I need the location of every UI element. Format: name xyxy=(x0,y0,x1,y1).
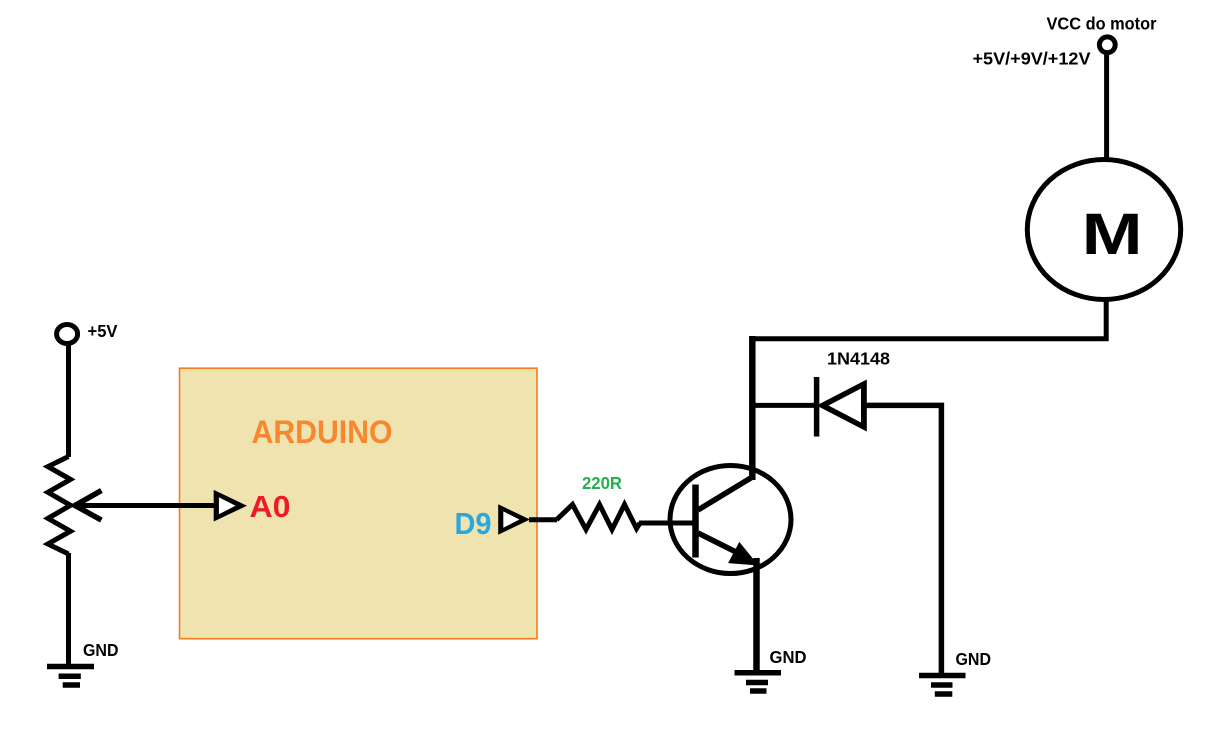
wire collector node to motor xyxy=(752,300,1106,339)
svg-text:A0: A0 xyxy=(250,489,291,524)
wire diode to right leg xyxy=(864,405,941,673)
pin A0 input triangle xyxy=(214,490,247,522)
wire emitter down xyxy=(753,558,760,672)
wire collector up xyxy=(749,336,756,480)
wire wiper to A0 xyxy=(76,503,214,508)
potentiometer R2 xyxy=(48,457,71,555)
svg-text:220R: 220R xyxy=(582,473,622,493)
wire D9 to resistor xyxy=(529,517,557,522)
wire VCC to motor xyxy=(1104,53,1109,161)
motor M1 xyxy=(1027,160,1180,300)
terminal VCC do motor xyxy=(1099,37,1115,53)
diode D1 1N4148 cathode bar xyxy=(814,377,820,437)
wire +5V to potentiometer xyxy=(66,345,71,457)
svg-text:GND: GND xyxy=(83,640,119,660)
svg-text:1N4148: 1N4148 xyxy=(827,349,890,369)
wire potentiometer to GND xyxy=(66,553,71,666)
svg-text:VCC do motor: VCC do motor xyxy=(1047,14,1157,34)
svg-text:M: M xyxy=(1082,202,1143,267)
pin D9 output triangle xyxy=(498,504,530,534)
transistor Q1 xyxy=(670,466,791,574)
svg-text:+5V/+9V/+12V: +5V/+9V/+12V xyxy=(973,49,1091,69)
Arduino board U1 xyxy=(180,368,538,639)
ground GND (right) xyxy=(919,649,991,694)
svg-text:+5V: +5V xyxy=(88,321,118,341)
svg-text:GND: GND xyxy=(770,647,807,667)
wiper arrow xyxy=(75,491,101,521)
ground GND (left) xyxy=(47,640,119,685)
wire node to diode xyxy=(752,403,814,408)
svg-text:ARDUINO: ARDUINO xyxy=(252,414,393,450)
resistor R1 220R xyxy=(557,505,641,530)
ground GND (emitter) xyxy=(735,647,807,691)
wire resistor to base xyxy=(639,521,695,526)
terminal +5V xyxy=(57,325,78,344)
diode D1 triangle xyxy=(817,380,867,432)
svg-text:D9: D9 xyxy=(455,506,492,541)
svg-text:GND: GND xyxy=(956,649,992,669)
